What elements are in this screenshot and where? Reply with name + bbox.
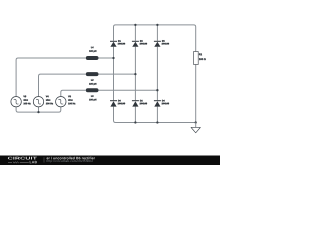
node junction top rail column3	[156, 24, 158, 26]
node junction bottom rail column2	[134, 121, 136, 123]
voltage source V4	[33, 97, 43, 107]
label D5 value 1N4148	[162, 40, 169, 44]
label V4 value sine 100 Hz	[46, 96, 53, 105]
label D2 value 1N4148	[140, 100, 147, 104]
wire column 2 D3 anode to D2 cathode	[133, 47, 137, 100]
label V5 value sine 100 Hz	[23, 96, 30, 105]
node junction row2-column2	[134, 73, 136, 75]
node junction bottom rail ground	[195, 121, 197, 123]
label D1 value 1N4148	[118, 40, 125, 44]
label D3 value 1N4148	[140, 40, 147, 44]
wire phase C from V3 top to L3 left	[61, 90, 86, 96]
footer CircuitLab logo	[8, 157, 37, 164]
wire L2 right to bridge column 2	[99, 72, 136, 76]
label R1 value 100 Ohm	[199, 53, 206, 60]
voltage source V5	[11, 97, 21, 107]
wire phase A from V5 top to L4 left	[16, 58, 86, 97]
diode D1	[110, 41, 117, 47]
wire top rail drop to D3 cathode	[133, 25, 137, 41]
label V3 value sine 100 Hz	[68, 96, 75, 105]
footer bar	[0, 156, 220, 166]
wire D2 anode to bottom rail	[133, 107, 137, 123]
wire top positive rail from D1 cathode to R1 top	[114, 25, 196, 52]
wire V4 bottom stub to neutral rail	[37, 107, 41, 112]
wire phase B from V4 top to L2 left	[39, 74, 86, 96]
wire column 3 D5 anode to D4 cathode	[155, 47, 159, 100]
footer separator	[43, 157, 45, 162]
diode D4	[154, 100, 161, 106]
wire neutral rail joining source bottoms	[16, 107, 61, 112]
wire bottom negative rail from D6 anode to ground corner	[114, 107, 196, 123]
resistor R1	[194, 52, 199, 65]
diode D6	[110, 100, 117, 106]
wire D4 anode to bottom rail	[155, 107, 159, 123]
node junction row3-column3	[156, 89, 158, 91]
node junction bottom rail column3	[156, 121, 158, 123]
node junction top rail column2	[134, 24, 136, 26]
inductor L3	[86, 88, 99, 92]
voltage source V3	[56, 97, 66, 107]
footer title text	[47, 157, 95, 160]
wire L4 right to bridge column 1	[99, 56, 114, 60]
wire column 1 D1 anode to D6 cathode	[112, 47, 116, 100]
diode D2	[132, 100, 139, 106]
inductor L4	[86, 56, 99, 60]
label L2 value 100 uH	[89, 79, 96, 85]
node junction neutral rail V4	[37, 111, 39, 113]
label L4 value 100 uH	[89, 47, 96, 53]
label L3 value 100 uH	[89, 95, 96, 101]
wire L3 right to bridge column 3	[99, 88, 158, 92]
wire R1 bottom to bottom rail	[194, 65, 198, 123]
inductor L2	[86, 72, 99, 76]
diode D5	[154, 41, 161, 47]
footer url text	[47, 160, 93, 163]
wire top rail drop to D5 cathode	[155, 25, 159, 41]
label D6 value 1N4148	[118, 100, 125, 104]
node junction row1-column1	[112, 57, 114, 59]
diode D3	[132, 41, 139, 47]
label D4 value 1N4148	[162, 100, 169, 104]
ground	[191, 123, 200, 133]
